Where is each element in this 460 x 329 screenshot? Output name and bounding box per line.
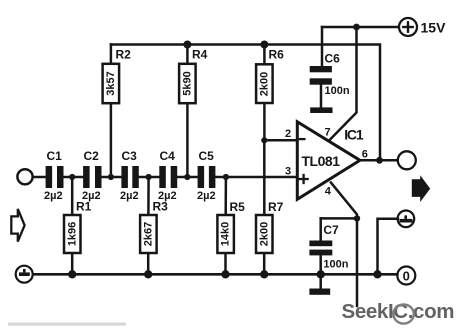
svg-text:IC1: IC1	[344, 127, 364, 143]
resistor R5	[217, 177, 245, 274]
0V terminal circle	[397, 267, 415, 285]
wire ground to chassis terminal	[378, 219, 398, 274]
svg-text:2k67: 2k67	[142, 222, 154, 246]
svg-text:C5: C5	[199, 149, 215, 163]
node output-ground junction	[373, 270, 381, 278]
svg-text:R5: R5	[230, 200, 246, 214]
svg-text:R2: R2	[116, 48, 132, 62]
svg-text:2µ2: 2µ2	[120, 190, 139, 202]
svg-text:2µ2: 2µ2	[197, 190, 216, 202]
node pin4/C7 junction	[354, 215, 360, 221]
ground stub and bar (C7)	[319, 274, 322, 288]
node junction C4/C5 (R4 tap)	[177, 176, 197, 179]
+15V supply wire	[322, 26, 399, 29]
svg-text:100n: 100n	[325, 85, 350, 97]
svg-text:3: 3	[285, 165, 291, 177]
minus input mark	[300, 138, 305, 140]
svg-text:15V: 15V	[421, 20, 447, 36]
svg-text:0: 0	[403, 268, 410, 283]
watermark SeekIC.com	[342, 300, 455, 324]
svg-text:1k96: 1k96	[66, 222, 78, 246]
svg-text:2k00: 2k00	[258, 72, 270, 96]
node junction C1/C2 (R1 tap)	[64, 176, 84, 179]
input terminal circle	[17, 169, 32, 184]
capacitor C4	[158, 149, 177, 202]
wire pin4 down	[331, 183, 357, 307]
svg-text:C2: C2	[84, 149, 100, 163]
wire pin7 to +15V rail	[330, 27, 357, 140]
node junction C2/C3 (R2 tap)	[102, 176, 122, 179]
svg-text:R6: R6	[269, 48, 285, 62]
node R3 ground	[144, 270, 152, 278]
node output junction	[376, 157, 383, 164]
wire pin2	[264, 139, 297, 142]
ground terminal circle (left)	[16, 266, 33, 283]
svg-text:7: 7	[325, 126, 331, 138]
svg-text:C3: C3	[122, 149, 138, 163]
node junction C3/C4 (R3 tap)	[139, 176, 160, 179]
capacitor C3	[120, 149, 139, 202]
feedback bus wire (top)	[111, 45, 380, 161]
capacitor C1	[44, 149, 64, 202]
capacitor C5	[197, 149, 216, 202]
svg-text:2: 2	[285, 128, 291, 140]
scan smudge bottom left	[8, 323, 126, 326]
resistor R3	[140, 177, 168, 274]
resistor R1	[64, 177, 92, 274]
node pin2 junction (R6/R7)	[261, 137, 267, 143]
svg-text:C6: C6	[325, 51, 341, 65]
ground bar (C6)	[310, 107, 332, 113]
svg-text:6: 6	[362, 149, 368, 161]
node +15V junction	[353, 24, 360, 31]
wire input to C1	[33, 176, 46, 179]
node junction C5 output (R5 tap)	[215, 176, 297, 179]
svg-text:5k90: 5k90	[181, 71, 193, 95]
svg-text:C4: C4	[160, 149, 176, 163]
svg-text:2k00: 2k00	[258, 222, 270, 246]
+15V terminal circle	[399, 18, 446, 36]
capacitor C2	[82, 149, 102, 202]
capacitor C6	[310, 27, 350, 107]
capacitor C7	[309, 218, 348, 274]
svg-text:2µ2: 2µ2	[44, 190, 63, 202]
wire C7 tee	[321, 217, 357, 220]
wire pin6 output	[360, 159, 398, 162]
chassis terminal circle (right)	[398, 211, 415, 228]
op-amp IC1 TL081	[285, 122, 368, 200]
svg-text:100n: 100n	[323, 259, 348, 271]
svg-text:R4: R4	[192, 48, 208, 62]
svg-text:SeekIC.com: SeekIC.com	[342, 300, 455, 323]
resistor R7	[256, 140, 284, 274]
resistor R2	[103, 45, 132, 178]
node R7 ground	[260, 270, 268, 278]
input arrow (open)	[11, 209, 24, 242]
resistor R6	[256, 41, 284, 141]
svg-text:C1: C1	[47, 149, 63, 163]
svg-text:4: 4	[325, 185, 332, 197]
node R1 ground	[68, 270, 76, 278]
plus input mark	[300, 178, 308, 180]
output terminal circle	[398, 151, 416, 169]
svg-text:3k57: 3k57	[105, 71, 117, 95]
svg-text:R1: R1	[76, 200, 92, 214]
node R5 ground	[221, 270, 229, 278]
ground bus wire (bottom)	[33, 273, 398, 276]
svg-text:C7: C7	[323, 223, 339, 237]
svg-text:R3: R3	[153, 200, 169, 214]
resistor R4	[179, 41, 208, 178]
svg-text:14k0: 14k0	[220, 222, 232, 246]
svg-text:TL081: TL081	[302, 153, 341, 169]
svg-text:R7: R7	[268, 200, 284, 214]
node C7 ground	[317, 270, 325, 278]
output arrow (solid)	[412, 175, 430, 202]
